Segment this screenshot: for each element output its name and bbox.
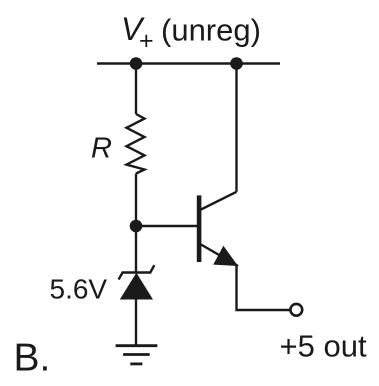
ground: [116, 346, 158, 364]
net label V+ (unreg): [121, 11, 261, 55]
wire collector to rail: [235, 64, 237, 192]
svg-text:+: +: [139, 27, 154, 55]
svg-text:5.6V: 5.6V: [50, 274, 108, 305]
transistor Q1 emitter arrow: [213, 246, 238, 266]
junction dot right: [230, 57, 243, 70]
output terminal circle: [290, 304, 302, 316]
svg-text:+5 out: +5 out: [280, 329, 367, 364]
transistor Q1 base bar: [197, 195, 202, 262]
wire resistor to base node: [135, 174, 137, 227]
junction dot left: [130, 57, 143, 70]
svg-text:B.: B.: [14, 337, 51, 380]
transistor Q1 emitter lead: [201, 245, 238, 267]
svg-text:R: R: [91, 133, 112, 165]
wire rail to resistor: [135, 64, 137, 115]
zener diode D1 cathode bar: [119, 265, 155, 279]
wire base: [136, 225, 197, 227]
transistor Q1 collector lead: [201, 192, 237, 210]
resistor R: [127, 114, 145, 174]
wire base node to zener: [135, 226, 137, 273]
zener diode D1 anode triangle: [120, 273, 153, 300]
wire zener to ground: [135, 300, 137, 346]
wire top supply rail: [97, 62, 280, 64]
svg-text:(unreg): (unreg): [161, 13, 261, 48]
junction dot base node: [130, 220, 143, 233]
wire emitter to output: [237, 266, 291, 310]
